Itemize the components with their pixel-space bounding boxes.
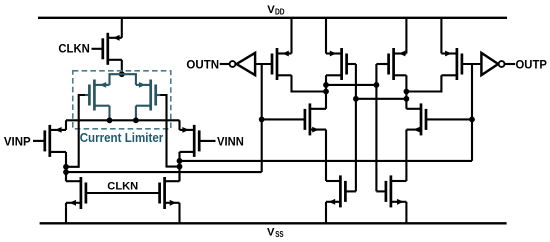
- label VDD: [267, 4, 285, 17]
- wire M15 gate lead: [376, 190, 386, 192]
- wire node A to latch (lower cross line): [66, 171, 262, 173]
- wire M8 drain to left node: [292, 75, 327, 91]
- wire M11 source to VDD: [440, 18, 442, 54]
- wire U1 input to M8 gate: [255, 63, 272, 65]
- current limiter box: [73, 71, 171, 129]
- node M3 drain-tail junction: [133, 117, 139, 123]
- transistor M2 (current limiter left PMOS): [89, 80, 109, 111]
- wire M14 source to VSS: [325, 202, 327, 224]
- node right gate-drop junction: [374, 82, 380, 88]
- wire U2 bubble to OUTP label: [505, 63, 515, 65]
- node B upper junction: [177, 158, 183, 164]
- label OUTP: [516, 57, 547, 71]
- power rail VSS: [40, 222, 507, 224]
- transistor M6 (CLKN NMOS left): [66, 177, 86, 209]
- wire M7 source to VSS: [178, 203, 180, 224]
- wire M10 gate drop: [375, 64, 377, 191]
- wire right node vertical: [405, 75, 407, 109]
- wire M1 source to VDD: [121, 18, 123, 38]
- wire M12 source to M14 drain: [325, 130, 327, 181]
- node left-node dot1: [323, 82, 329, 88]
- label CLKN (M6-M7 gates): [107, 180, 138, 192]
- wire M4 drain / node A vertical: [65, 152, 67, 181]
- inverter U1 (OUTN): [230, 53, 256, 75]
- transistor M4 (VINP input PMOS): [45, 125, 66, 157]
- transistor M14 (latch bottom-left NMOS): [326, 175, 345, 207]
- node right-node dot1: [404, 89, 410, 95]
- node OUTP-M13 gate junction: [469, 117, 475, 123]
- wire M8 source to VDD: [290, 18, 292, 54]
- wire M4 gate lead: [33, 140, 45, 142]
- wire M1 gate lead: [92, 48, 103, 50]
- wire right node to M9 gate (cross wire): [356, 98, 407, 100]
- transistor M12 (latch middle-left NMOS): [305, 103, 326, 135]
- transistor M8 (latch outer-left PMOS): [272, 48, 292, 80]
- transistor M1 (CLKN PMOS): [103, 33, 122, 65]
- wire CLKN gate link: [86, 192, 160, 194]
- transistor M5 (VINN input PMOS): [180, 125, 200, 157]
- wire tail line: [66, 119, 180, 121]
- svg-text:SS: SS: [275, 230, 283, 239]
- wire left node vertical: [325, 75, 327, 109]
- svg-text:V: V: [267, 226, 275, 238]
- transistor M13 (latch middle-right NMOS): [406, 103, 426, 135]
- wire M14 gate lead: [345, 190, 356, 192]
- node OUTN-M12 gate junction: [259, 117, 265, 123]
- node left gate-drop junction: [353, 96, 359, 102]
- wire OUTP node vertical: [471, 64, 473, 161]
- node A upper junction: [63, 164, 69, 170]
- wire M6 source to VSS: [65, 203, 67, 224]
- wire M4 source to tail line: [65, 120, 67, 130]
- wire M11 drain to right node: [406, 75, 441, 91]
- node A lower junction: [63, 169, 69, 175]
- transistor M7 (CLKN NMOS right): [160, 177, 180, 209]
- label VINP: [4, 134, 31, 148]
- transistor M3 (current limiter right PMOS): [136, 80, 156, 111]
- svg-text:VINN: VINN: [217, 134, 244, 148]
- transistor M11 (latch outer-right PMOS): [441, 48, 462, 80]
- transistor M10 (latch inner-right PMOS): [389, 48, 407, 80]
- wire M11 gate to U2 input: [462, 63, 482, 65]
- svg-text:OUTP: OUTP: [516, 57, 547, 71]
- wire M3 source to node T: [122, 74, 136, 85]
- wire M9 source to VDD: [325, 18, 327, 54]
- wire M15 source to VSS: [405, 202, 407, 224]
- wire M2 drain to tail line: [108, 106, 110, 121]
- wire M6 drain to node A: [65, 172, 67, 181]
- wire node B to latch (upper cross line): [180, 160, 473, 162]
- wire OUTN node vertical: [261, 64, 263, 172]
- transistor M15 (latch bottom-right NMOS): [386, 175, 407, 207]
- wire M2 source to node T: [110, 74, 122, 85]
- wire left node to M10 gate (cross wire): [326, 84, 376, 86]
- label OUTN: [186, 57, 219, 71]
- wire M2 gate drop to node A: [66, 95, 85, 167]
- svg-text:VINP: VINP: [4, 134, 31, 148]
- wire M7 drain to node B: [178, 172, 180, 181]
- inverter U2 (OUTP): [481, 53, 504, 75]
- wire M12 gate lead: [262, 118, 305, 120]
- wire M5 gate lead: [199, 140, 215, 142]
- svg-text:DD: DD: [275, 8, 285, 17]
- wire M1 drain to node T: [121, 60, 123, 74]
- svg-text:OUTN: OUTN: [186, 57, 219, 71]
- wire M9 gate drop: [355, 64, 357, 191]
- label Current Limiter: [80, 130, 164, 145]
- node M2 drain-tail junction: [107, 117, 113, 123]
- wire M3 drain to tail line: [135, 106, 137, 121]
- wire OUTN label to U1 bubble: [220, 63, 230, 65]
- label CLKN (M1 gate): [58, 41, 89, 55]
- wire M13 gate lead: [426, 118, 472, 120]
- svg-text:CLKN: CLKN: [107, 180, 138, 192]
- wire M5 drain / node B vertical: [178, 152, 180, 181]
- power rail VDD: [38, 17, 507, 19]
- wire M3 gate drop to node B: [160, 95, 179, 167]
- label VINN: [217, 134, 244, 148]
- wire M10 source to VDD: [405, 18, 407, 54]
- wire M13 source to M15 drain: [405, 130, 407, 181]
- wire M10 gate lead: [376, 63, 388, 65]
- transistor M9 (latch inner-left PMOS): [326, 48, 347, 80]
- wire M5 source to tail line: [178, 120, 180, 130]
- node T junction: [119, 71, 125, 77]
- node right-node dot2: [404, 96, 410, 102]
- node B lower junction: [177, 164, 183, 170]
- label VSS: [267, 226, 284, 239]
- node left-node dot2: [323, 89, 329, 95]
- wire M2 gate lead (teal stub): [85, 94, 90, 96]
- svg-text:CLKN: CLKN: [58, 41, 89, 55]
- wire M3 gate lead (teal stub): [156, 94, 161, 96]
- svg-text:Current Limiter: Current Limiter: [80, 130, 164, 145]
- wire M9 gate lead: [347, 63, 356, 65]
